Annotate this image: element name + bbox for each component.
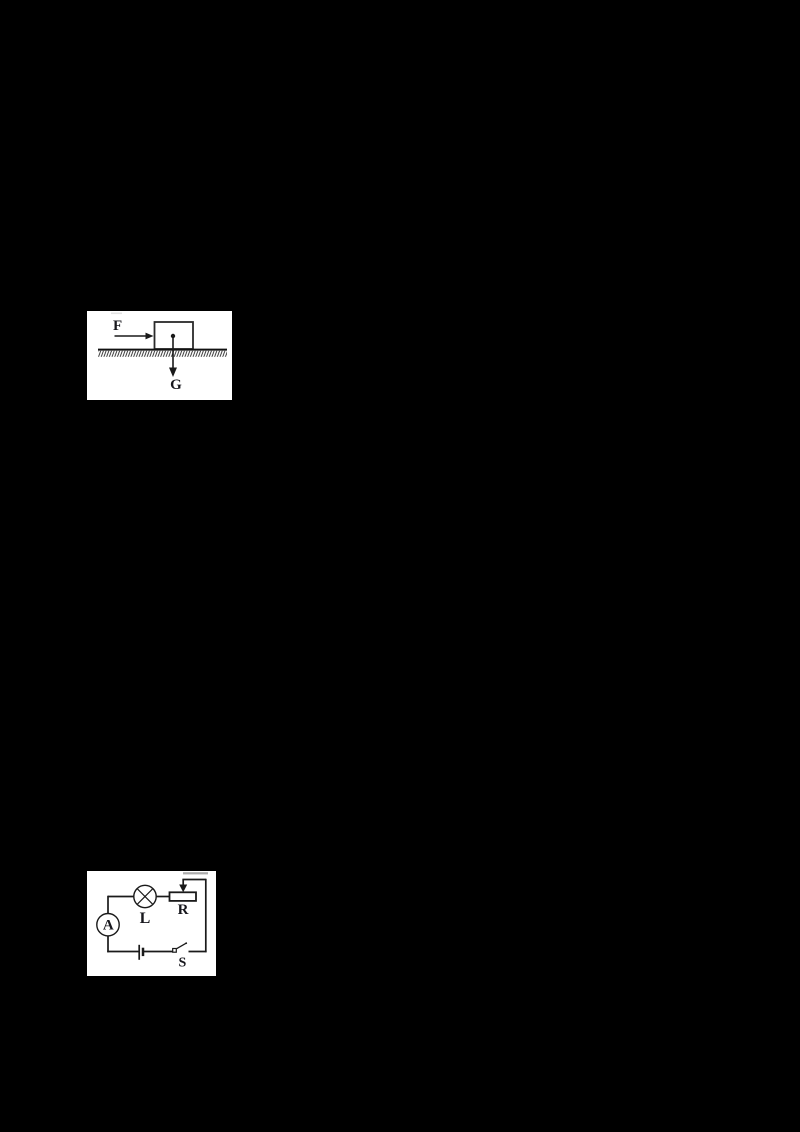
wire bottom left segment xyxy=(107,951,139,953)
wire lamp to rheostat xyxy=(157,896,170,898)
svg-text:R: R xyxy=(178,902,189,918)
wire right vertical xyxy=(205,879,207,953)
switch S pivot xyxy=(173,949,177,953)
svg-text:A: A xyxy=(103,918,114,934)
wire top-left horizontal xyxy=(108,896,134,898)
switch blade xyxy=(177,943,187,949)
rheostat R body xyxy=(170,892,197,901)
svg-text:S: S xyxy=(179,956,187,971)
gravity arrow G xyxy=(172,336,174,369)
rheostat slider arrow xyxy=(182,880,184,886)
circuit figure xyxy=(87,871,216,976)
force arrow F xyxy=(115,335,148,337)
mechanics figure: block on ground with forces F and G xyxy=(87,311,232,400)
lamp L xyxy=(134,885,156,907)
center-of-mass dot xyxy=(171,334,175,338)
svg-text:L: L xyxy=(140,910,151,927)
wire switch to right xyxy=(189,951,207,953)
svg-text:F: F xyxy=(113,318,122,334)
battery long plate xyxy=(138,945,140,960)
svg-text:G: G xyxy=(170,377,182,393)
ground hatching xyxy=(98,351,227,357)
scan smudge xyxy=(183,872,208,874)
wire left vertical (top) xyxy=(107,896,109,914)
battery short plate xyxy=(142,948,145,956)
wire left vertical (bottom) xyxy=(107,936,109,953)
wire slider to top-right xyxy=(182,879,205,881)
ammeter A xyxy=(97,914,119,936)
scan smudge xyxy=(111,313,122,315)
wire battery to switch xyxy=(143,951,173,953)
ground line xyxy=(98,349,227,351)
block xyxy=(155,322,194,349)
